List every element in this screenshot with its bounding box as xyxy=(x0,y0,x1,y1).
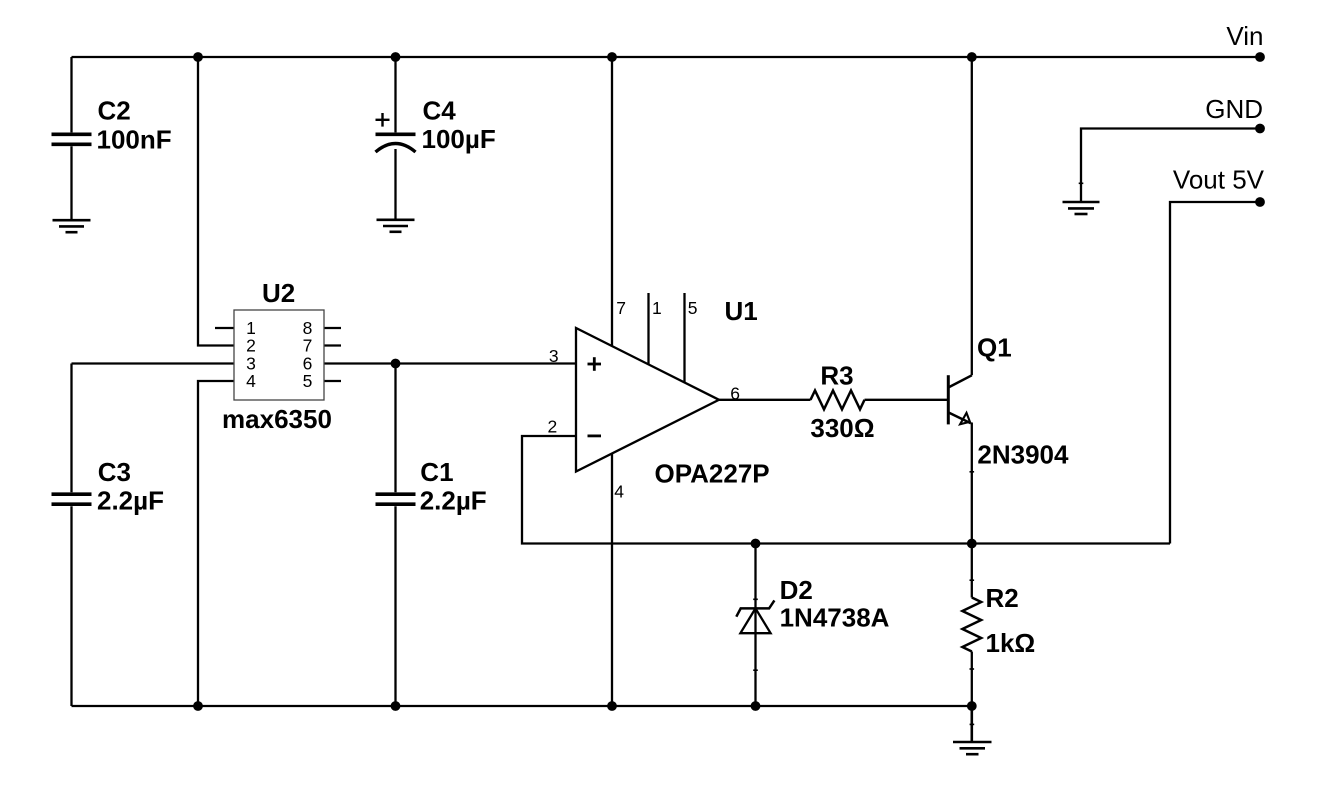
wire op-amp pin4 to bottom rail xyxy=(611,453,613,706)
svg-text:100nF: 100nF xyxy=(97,125,172,155)
ground (GND terminal) xyxy=(1063,202,1100,214)
svg-text:7: 7 xyxy=(616,298,626,318)
wire U2 pin1 stub xyxy=(215,327,234,329)
svg-text:U1: U1 xyxy=(725,296,758,326)
svg-text:1N4738A: 1N4738A xyxy=(780,603,890,633)
wire op-amp pin7 to top rail xyxy=(611,57,613,346)
wire U2 pin7 stub xyxy=(324,344,341,346)
svg-text:1: 1 xyxy=(652,298,662,318)
ground (under C4) xyxy=(377,220,415,232)
wire top rail Vin xyxy=(72,56,1261,58)
op-amp minus symbol xyxy=(588,434,602,437)
svg-text:2N3904: 2N3904 xyxy=(977,440,1069,470)
svg-text:C3: C3 xyxy=(98,457,131,487)
wire R3 to Q1 base xyxy=(865,399,949,401)
svg-text:max6350: max6350 xyxy=(222,404,332,434)
svg-text:100µF: 100µF xyxy=(422,124,496,154)
wire U2 pin4 to bottom rail xyxy=(198,381,234,706)
svg-text:C1: C1 xyxy=(420,457,453,487)
svg-text:7: 7 xyxy=(303,336,313,356)
wire inverting input feedback xyxy=(522,436,1170,544)
resistor R2 zigzag xyxy=(962,544,981,707)
svg-text:Vin: Vin xyxy=(1226,21,1263,51)
wire op-amp pin5 stub xyxy=(683,293,685,383)
svg-text:330Ω: 330Ω xyxy=(810,413,874,443)
svg-text:4: 4 xyxy=(246,371,256,391)
wire U2 pin5 stub xyxy=(324,380,341,382)
ground (under C2) xyxy=(53,220,91,232)
transistor Q1 xyxy=(948,57,972,544)
wire U2 pin6 to op-amp noninverting input xyxy=(324,362,576,364)
svg-text:4: 4 xyxy=(614,482,624,502)
svg-text:6: 6 xyxy=(730,383,740,403)
wire Vout terminal lead xyxy=(1170,202,1260,544)
wire U2 pin8 stub xyxy=(324,327,341,329)
wire top rail to U2 pin2 xyxy=(198,57,234,346)
capacitor C4 (polarized) xyxy=(376,57,416,220)
svg-text:R3: R3 xyxy=(820,360,853,390)
wire op-amp output xyxy=(719,399,811,401)
svg-text:2.2µF: 2.2µF xyxy=(97,486,164,516)
zener diode D2 xyxy=(736,544,774,707)
svg-text:5: 5 xyxy=(303,371,313,391)
svg-text:2: 2 xyxy=(547,416,557,436)
ground (bottom rail) xyxy=(953,706,992,754)
lead joint ticks xyxy=(753,183,1083,724)
op-amp pin labels xyxy=(547,298,739,501)
svg-text:OPA227P: OPA227P xyxy=(655,459,770,489)
wire GND terminal lead xyxy=(1081,129,1260,203)
junction node dots xyxy=(193,52,1265,711)
svg-text:D2: D2 xyxy=(780,575,813,605)
svg-text:2: 2 xyxy=(246,336,256,356)
svg-text:Vout 5V: Vout 5V xyxy=(1173,164,1265,194)
op-amp U1 triangle xyxy=(576,328,719,472)
capacitor C3 xyxy=(52,364,92,707)
capacitor C2 xyxy=(52,57,92,220)
svg-text:R2: R2 xyxy=(986,583,1019,613)
svg-text:C2: C2 xyxy=(98,96,131,126)
capacitor C1 xyxy=(376,364,416,707)
svg-text:GND: GND xyxy=(1205,94,1263,124)
svg-text:3: 3 xyxy=(549,346,559,366)
IC U2 box xyxy=(234,310,324,400)
wire bottom ground rail xyxy=(72,705,972,707)
U2 pin numbers xyxy=(246,318,312,391)
wire op-amp pin1 stub xyxy=(647,293,649,364)
op-amp plus symbol xyxy=(588,357,602,371)
svg-text:Q1: Q1 xyxy=(977,333,1012,363)
svg-text:5: 5 xyxy=(688,298,698,318)
svg-text:C4: C4 xyxy=(423,95,457,125)
svg-text:U2: U2 xyxy=(262,278,295,308)
svg-text:2.2µF: 2.2µF xyxy=(420,486,487,516)
wire U2 pin3 input xyxy=(72,362,235,364)
resistor R3 zigzag xyxy=(811,391,865,410)
svg-text:1kΩ: 1kΩ xyxy=(986,628,1036,658)
